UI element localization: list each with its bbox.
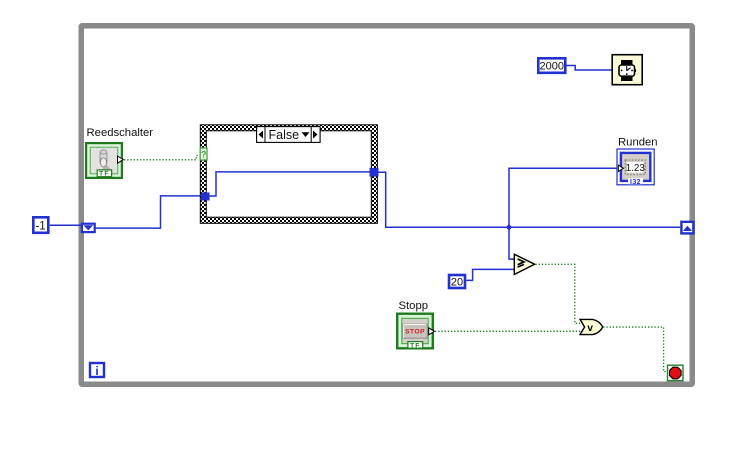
right shift register bbox=[681, 222, 693, 234]
wire branch up to Runden bbox=[509, 168, 619, 227]
Runden numeric indicator bbox=[617, 149, 654, 186]
svg-text:1.23: 1.23 bbox=[626, 163, 646, 174]
wire inside case bbox=[210, 172, 370, 196]
svg-text:Stopp: Stopp bbox=[399, 300, 429, 312]
comparator greater or equal bbox=[514, 254, 534, 274]
svg-text:i: i bbox=[95, 364, 98, 378]
Stopp boolean control bbox=[397, 314, 434, 350]
constant 20 bbox=[449, 275, 465, 288]
case right tunnel bbox=[370, 168, 379, 177]
dotted wire OR gate to loop condition bbox=[603, 327, 667, 372]
Reedschalter boolean control bbox=[86, 143, 123, 178]
svg-text:False: False bbox=[269, 128, 300, 142]
OR gate bbox=[580, 319, 603, 334]
iteration terminal i bbox=[90, 363, 104, 378]
svg-text:-1: -1 bbox=[35, 221, 45, 233]
wire junction bbox=[507, 225, 512, 230]
left shift register bbox=[82, 224, 95, 232]
wire case tunnel to right shift register bbox=[379, 172, 681, 227]
svg-text:Reedschalter: Reedschalter bbox=[87, 127, 154, 139]
svg-text:v: v bbox=[587, 323, 593, 334]
svg-text:STOP: STOP bbox=[405, 329, 425, 336]
case selector terminal ? bbox=[200, 148, 207, 160]
wire 20 to comparator bbox=[466, 269, 514, 280]
dotted wire Stopp to OR gate bbox=[435, 330, 583, 332]
wire branch down to comparator bbox=[509, 227, 514, 259]
case structure border bbox=[200, 125, 377, 224]
case selector label False bbox=[257, 127, 321, 143]
case left tunnel bbox=[201, 193, 210, 201]
Wait (ms) function bbox=[612, 55, 642, 85]
loop condition terminal (stop) bbox=[668, 365, 684, 381]
constant 2000 bbox=[538, 58, 565, 73]
svg-text:?: ? bbox=[201, 150, 207, 160]
wire 2000 to wait bbox=[566, 66, 611, 71]
wire left SR to case tunnel bbox=[95, 196, 201, 228]
svg-text:TF: TF bbox=[410, 342, 420, 349]
dotted wire comparator to OR gate bbox=[536, 264, 581, 323]
while loop border bbox=[81, 26, 692, 385]
svg-text:I32: I32 bbox=[630, 179, 641, 186]
dotted boolean wire Reedschalter to case selector bbox=[124, 156, 200, 160]
wire -1 to shift register bbox=[50, 224, 82, 226]
svg-text:20: 20 bbox=[451, 276, 463, 288]
svg-text:Runden: Runden bbox=[618, 137, 658, 149]
svg-text:2000: 2000 bbox=[540, 61, 564, 73]
svg-text:TF: TF bbox=[99, 171, 110, 178]
constant -1 bbox=[33, 217, 48, 233]
